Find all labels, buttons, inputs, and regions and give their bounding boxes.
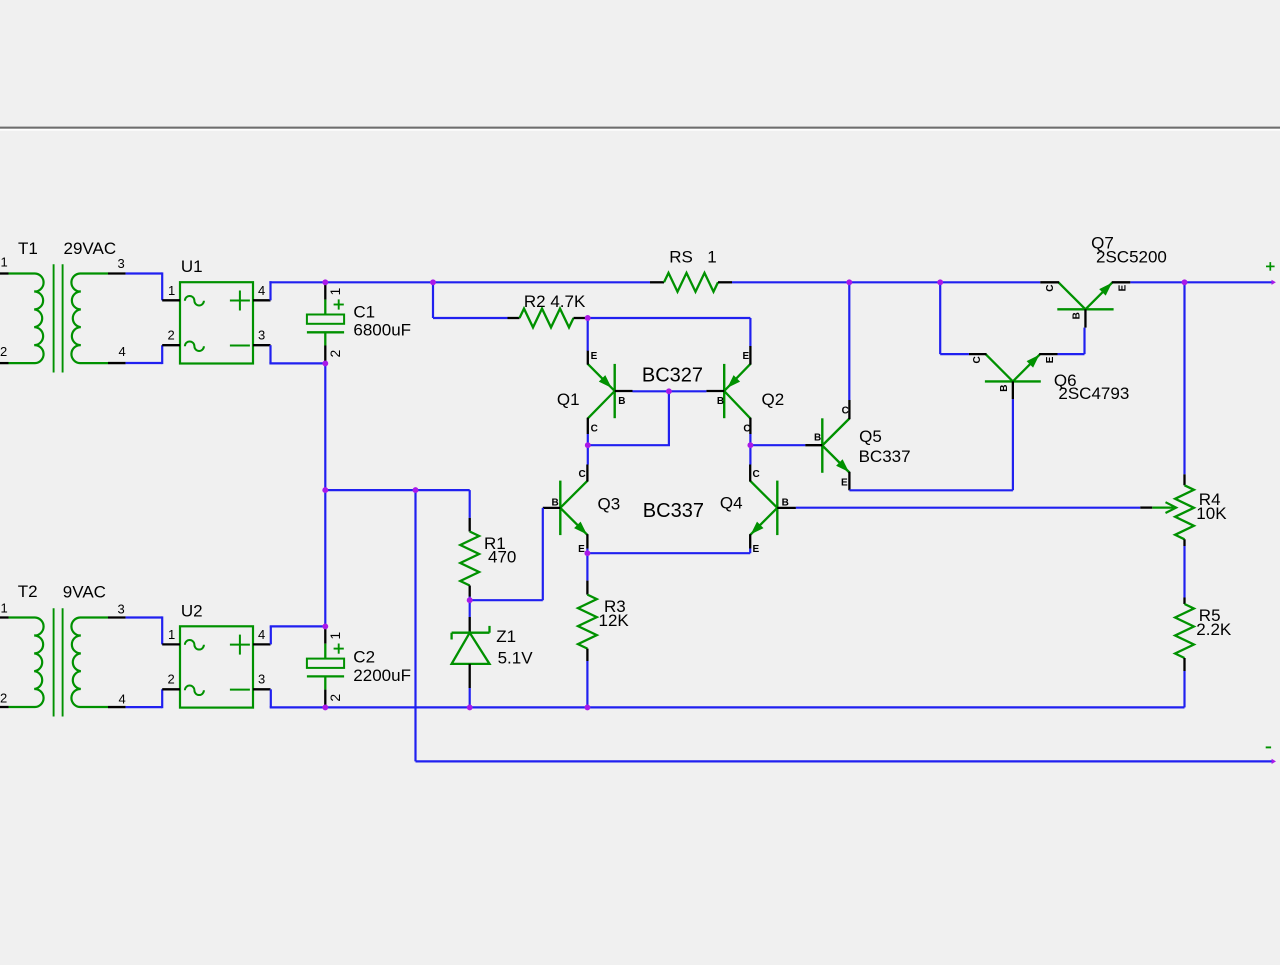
transistor Q4 bar — [776, 481, 778, 535]
wire mid node to R1 — [416, 489, 470, 491]
wire T1 pin3 to U1 pin1 — [126, 272, 163, 274]
svg-text:2200uF: 2200uF — [353, 666, 411, 685]
transistor Q2 bar — [723, 364, 725, 418]
junction C1/C2 mid node — [322, 487, 328, 493]
svg-text:RS: RS — [669, 248, 693, 267]
zener diode Z1 — [469, 617, 471, 634]
wire top rail down to R4 — [1183, 281, 1185, 474]
wire Q3/Q4 emitters down to R3 — [586, 553, 588, 580]
resistor R2 — [508, 317, 520, 319]
svg-text:3: 3 — [258, 328, 265, 343]
resistor RS — [650, 281, 664, 283]
Q5 base pin — [805, 444, 822, 446]
svg-text:U2: U2 — [181, 601, 203, 620]
Q1 emitter pin — [587, 351, 589, 365]
Q1 collector pin — [587, 418, 589, 434]
svg-text:2SC5200: 2SC5200 — [1096, 248, 1167, 267]
svg-text:T2: T2 — [18, 582, 38, 601]
svg-text:2: 2 — [327, 694, 343, 702]
output - symbol — [1266, 746, 1271, 748]
svg-text:Q5: Q5 — [859, 427, 882, 446]
wire Q3 base down to zener node — [542, 508, 544, 600]
junction top rail / R2 branch — [430, 279, 436, 285]
junction Q1/Q2 base tie — [666, 388, 672, 394]
svg-text:Q4: Q4 — [720, 494, 743, 513]
svg-text:1: 1 — [168, 283, 175, 298]
wire Q3 emitter to Q4 emitter — [587, 552, 750, 554]
svg-text:2: 2 — [168, 328, 175, 343]
junction zener node — [467, 597, 473, 603]
transistor Q1 bar — [614, 364, 616, 418]
wire Q5 collector to top rail — [848, 281, 850, 400]
svg-text:E: E — [591, 351, 598, 362]
minus output rail — [416, 760, 1273, 762]
Q2 collector diagonal — [724, 391, 750, 418]
svg-text:12K: 12K — [599, 611, 630, 630]
svg-text:B: B — [782, 498, 789, 509]
Q4 emitter pin — [749, 534, 751, 548]
junction R2 / Q1 Q2 emitters — [585, 315, 591, 321]
Q1 base pin — [615, 390, 633, 392]
svg-text:2: 2 — [0, 691, 7, 706]
svg-text:B: B — [618, 396, 625, 407]
wire minus branch down — [414, 490, 416, 761]
svg-text:1: 1 — [168, 627, 175, 642]
svg-text:4: 4 — [119, 344, 126, 359]
svg-text:BC327: BC327 — [642, 364, 703, 386]
wire U1 pin4 up to top rail — [269, 281, 271, 300]
Q4 emitter arrow (NPN) — [751, 522, 764, 535]
Q7 emitter diagonal — [1085, 282, 1112, 309]
transformer T1 — [0, 272, 9, 274]
svg-text:BC337: BC337 — [859, 447, 911, 466]
wire Q5 emitter to Q6 base — [849, 489, 1013, 491]
svg-text:1: 1 — [327, 287, 343, 295]
svg-text:1: 1 — [1, 255, 8, 270]
Q1 emitter diagonal — [588, 364, 615, 391]
svg-text:9VAC: 9VAC — [63, 583, 106, 602]
transistor Q7 bar — [1057, 308, 1113, 310]
wire R2 junction to Q2 emitter corner — [588, 317, 751, 319]
Q3 collector diagonal — [560, 481, 587, 508]
wire R2 junction down to Q1 emitter — [587, 318, 589, 351]
capacitor C1 — [324, 283, 326, 300]
svg-text:5.1V: 5.1V — [498, 648, 534, 667]
svg-text:E: E — [743, 351, 750, 362]
Q6 emitter diagonal — [1013, 354, 1040, 381]
Q6 collector diagonal — [986, 354, 1013, 381]
Q7 emitter pin — [1112, 281, 1131, 283]
transistor Q6 bar — [985, 380, 1041, 382]
Q5 collector diagonal — [822, 419, 849, 446]
svg-text:B: B — [999, 385, 1010, 392]
junction Q2 collector node — [747, 442, 753, 448]
Q7 base pin — [1084, 309, 1086, 327]
svg-text:E: E — [1045, 356, 1056, 363]
Q7 collector diagonal — [1058, 282, 1085, 309]
wire T1 pin4 to U1 pin2 — [126, 362, 163, 364]
svg-text:C: C — [753, 469, 760, 480]
wire top rail Q7 emitter to output + — [1130, 281, 1272, 283]
Q4 emitter diagonal — [750, 508, 777, 535]
svg-text:B: B — [1072, 312, 1083, 319]
Q5 emitter arrow (NPN) — [836, 459, 849, 472]
junction Z1 / ground rail — [467, 704, 473, 710]
Q3 emitter diagonal — [560, 508, 587, 535]
svg-text:C: C — [591, 423, 598, 434]
junction minus branch — [413, 487, 419, 493]
svg-text:C: C — [842, 406, 849, 417]
Q1 emitter arrow (PNP) — [599, 375, 612, 388]
Q2 emitter diagonal — [724, 364, 750, 391]
svg-text:C2: C2 — [353, 648, 375, 667]
svg-text:470: 470 — [488, 548, 516, 567]
bridge rectifier U2 — [180, 626, 253, 707]
wire Z1 to ground rail — [469, 688, 471, 707]
svg-text:R2 4.7K: R2 4.7K — [524, 292, 586, 311]
svg-text:C1: C1 — [353, 302, 375, 321]
R4 wiper arrow — [1140, 506, 1152, 508]
svg-text:4: 4 — [119, 692, 126, 707]
wire Q6 collector to top rail — [939, 281, 941, 354]
svg-text:Q1: Q1 — [557, 390, 580, 409]
wire T2 pin3 to U2 pin1 — [126, 616, 163, 618]
resistor R1 — [469, 518, 471, 532]
Q3 base pin — [543, 507, 561, 509]
svg-text:Q3: Q3 — [598, 494, 621, 513]
svg-text:C: C — [743, 423, 750, 434]
wire T2 pin4 to U2 pin2 — [126, 706, 163, 708]
Q2 emitter arrow (PNP) — [727, 375, 740, 388]
Q2 base pin — [706, 390, 724, 392]
wire U1 pin3 to C1 bottom — [269, 345, 271, 363]
Q3 collector pin — [586, 465, 588, 482]
output + symbol — [1266, 265, 1275, 267]
svg-text:1: 1 — [327, 632, 343, 640]
junction R3 / ground rail — [584, 704, 590, 710]
Q4 collector pin — [749, 465, 751, 482]
wire zener node down — [469, 600, 471, 617]
svg-text:C: C — [972, 356, 983, 363]
Q3 emitter pin — [586, 534, 588, 548]
svg-text:B: B — [717, 396, 724, 407]
svg-text:E: E — [1117, 284, 1128, 291]
junction top rail / Q6 collector — [937, 279, 943, 285]
junction top rail / R4 — [1182, 279, 1188, 285]
Q6 collector pin — [969, 353, 987, 355]
Q6 base pin — [1012, 381, 1014, 399]
wire top rail left section (+V unregulated) — [269, 281, 650, 283]
svg-text:4: 4 — [258, 283, 265, 298]
wire R3 to ground rail — [586, 661, 588, 707]
toolbar separator line — [0, 127, 1280, 129]
Q6 emitter arrow (NPN) — [1027, 355, 1040, 368]
svg-text:3: 3 — [258, 672, 265, 687]
wire Q6 emitter up to Q7 base — [1058, 353, 1085, 355]
svg-text:B: B — [814, 433, 821, 444]
wire R5 to ground rail — [1183, 671, 1185, 707]
wire mid node right — [325, 489, 415, 491]
wire Q2 collector node to Q5 base — [750, 444, 805, 446]
svg-text:BC337: BC337 — [643, 500, 704, 522]
wire to R2 left — [433, 317, 508, 319]
svg-text:C: C — [579, 469, 586, 480]
ground rail — [270, 706, 1185, 708]
svg-text:3: 3 — [118, 602, 125, 617]
Q7 collector pin — [1040, 281, 1059, 283]
transistor Q5 bar — [821, 418, 823, 473]
Q5 collector pin — [848, 400, 850, 419]
output + arrow — [1272, 280, 1276, 285]
svg-text:2: 2 — [168, 672, 175, 687]
wire top rail down to R2 — [432, 281, 434, 318]
wire Q2 collector node down to Q4 collector — [749, 434, 751, 465]
svg-text:C: C — [1045, 284, 1056, 291]
wire Q4 base to R4 wiper — [796, 507, 1140, 509]
wire base tie to Q1 collector node — [588, 444, 670, 446]
wire R4 to R5 — [1183, 546, 1185, 598]
Q2 collector pin — [749, 418, 751, 434]
svg-text:4: 4 — [258, 627, 265, 642]
svg-text:2: 2 — [0, 344, 7, 359]
svg-text:Z1: Z1 — [496, 627, 516, 646]
bridge rectifier U1 — [180, 282, 253, 363]
transformer T2 — [0, 616, 9, 618]
svg-text:T1: T1 — [18, 239, 38, 258]
svg-text:6800uF: 6800uF — [353, 321, 411, 340]
wire Q1 collector node down to Q3 collector — [587, 434, 589, 465]
junction C1 bottom / U1 pin3 — [322, 360, 328, 366]
wire Q3 emitter down — [586, 549, 588, 554]
wire R1 to zener node — [469, 597, 471, 601]
svg-text:2.2K: 2.2K — [1196, 620, 1232, 639]
Q2 emitter pin — [749, 346, 751, 365]
junction C2 bottom / ground rail — [322, 704, 328, 710]
svg-text:E: E — [841, 478, 848, 489]
svg-text:2: 2 — [327, 349, 343, 357]
transistor Q3 bar — [559, 481, 561, 535]
wire Q1 base to Q2 base — [633, 390, 707, 392]
svg-text:Q2: Q2 — [762, 390, 785, 409]
Q4 collector diagonal — [750, 481, 777, 508]
resistor R3 — [586, 581, 588, 595]
svg-text:1: 1 — [1, 601, 8, 616]
svg-text:29VAC: 29VAC — [64, 239, 117, 258]
Q3 emitter arrow (NPN) — [574, 522, 587, 535]
svg-text:1: 1 — [707, 248, 716, 267]
svg-text:E: E — [578, 544, 585, 555]
capacitor C2 — [324, 627, 326, 644]
wire U2 pin4 to C2 top — [270, 626, 272, 644]
svg-text:E: E — [753, 544, 760, 555]
Q7 emitter arrow (NPN) — [1099, 283, 1112, 296]
junction top rail / Q5 collector — [846, 279, 852, 285]
wire U2 pin3 to ground rail — [270, 689, 272, 707]
svg-text:U1: U1 — [181, 257, 203, 276]
Q6 emitter pin — [1039, 353, 1057, 355]
junction Q1 collector node — [585, 442, 591, 448]
output - arrow — [1272, 759, 1276, 764]
Q5 emitter pin — [848, 472, 850, 491]
svg-text:2SC4793: 2SC4793 — [1058, 384, 1129, 403]
Q5 emitter diagonal — [822, 446, 849, 473]
Q4 base pin — [777, 507, 796, 509]
potentiometer R4 — [1183, 474, 1185, 485]
junction Q3/Q4 emitter tie — [584, 550, 590, 556]
wire C1 bottom down — [324, 363, 326, 490]
wire C1/C2 mid node down to C2 — [324, 490, 326, 626]
junction top rail / C1 — [322, 279, 328, 285]
svg-text:B: B — [552, 498, 559, 509]
wire base tie down — [668, 391, 670, 445]
resistor R5 — [1183, 598, 1185, 605]
Q1 collector diagonal — [588, 391, 615, 418]
wire top rail RS to Q7 collector — [732, 281, 1040, 283]
junction C2 top — [322, 623, 328, 629]
svg-text:10K: 10K — [1196, 504, 1227, 523]
svg-text:3: 3 — [118, 256, 125, 271]
